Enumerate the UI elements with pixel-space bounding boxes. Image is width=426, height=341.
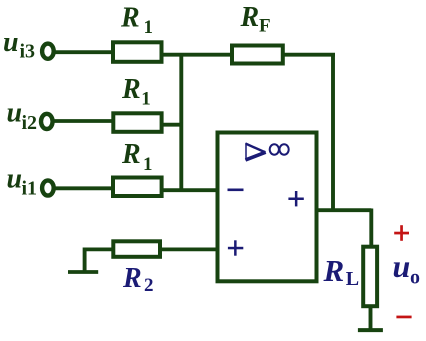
svg-text:u: u <box>7 164 23 195</box>
svg-text:R: R <box>122 263 142 294</box>
svg-text:R: R <box>323 253 345 288</box>
op-amp gain triangle symbol <box>246 143 266 160</box>
svg-text:R: R <box>120 2 140 33</box>
svg-text:1: 1 <box>141 89 151 110</box>
svg-text:i3: i3 <box>20 40 36 62</box>
svg-text:1: 1 <box>144 17 154 38</box>
wire output down to RL <box>369 209 373 248</box>
svg-text:i1: i1 <box>22 178 38 200</box>
svg-text:1: 1 <box>143 154 153 175</box>
wire R1(mid) output to bus <box>162 123 183 127</box>
svg-text:F: F <box>259 16 271 37</box>
op-amp infinity symbol <box>270 144 289 154</box>
output polarity plus sign (red) <box>394 225 409 241</box>
terminal circle ui2 <box>41 114 53 129</box>
resistor R2 box <box>113 241 160 256</box>
wire R2 left vertical to ground <box>83 248 87 272</box>
svg-text:R: R <box>121 74 141 105</box>
terminal circle ui3 <box>42 44 54 59</box>
wire ground to R2 <box>83 247 113 251</box>
wire ui3 input <box>54 50 113 54</box>
wire op-amp output horizontal <box>317 208 371 212</box>
svg-text:R: R <box>121 139 141 170</box>
svg-text:i2: i2 <box>22 112 38 134</box>
svg-text:o: o <box>410 267 420 289</box>
op-amp output plus sign (inside right) <box>288 191 303 206</box>
ground bar under RL <box>358 328 383 332</box>
wire R2 to non-inverting input <box>161 247 217 251</box>
wire ui2 input <box>54 119 113 123</box>
resistor R1 top box <box>113 42 162 62</box>
wire summing bus vertical <box>179 53 183 190</box>
svg-text:L: L <box>346 268 359 290</box>
terminal circle ui1 <box>42 180 54 195</box>
wire ui1 input <box>55 186 113 190</box>
resistor RF box <box>232 46 283 64</box>
op-amp inverting input minus sign <box>228 189 244 192</box>
svg-text:u: u <box>393 248 411 284</box>
op-amp U1 box <box>218 133 317 282</box>
wire RL to ground stem <box>369 307 373 329</box>
svg-text:u: u <box>7 98 23 129</box>
wire bus to inverting input <box>162 188 217 192</box>
wire R1(top) output to RF node <box>162 53 335 57</box>
resistor R1 bottom box <box>113 178 162 197</box>
resistor R1 middle box <box>113 113 161 132</box>
ground bar left of R2 <box>68 270 98 274</box>
svg-text:2: 2 <box>144 275 154 296</box>
output polarity minus sign (red) <box>396 316 411 319</box>
wire RF right drop <box>331 55 335 210</box>
svg-text:R: R <box>240 2 260 33</box>
svg-text:u: u <box>3 27 19 58</box>
resistor RL box <box>363 247 377 307</box>
op-amp non-inverting input plus sign <box>228 240 243 255</box>
